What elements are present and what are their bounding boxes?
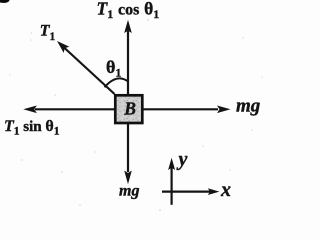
svg-text:θ1: θ1 [106, 57, 121, 80]
arrowhead diagonal up-left [57, 41, 69, 53]
wire: upward force line (T1 cos theta1) [127, 31, 129, 94]
wire: left force line (T1 sin theta1) [35, 108, 114, 110]
arrowhead down [124, 171, 132, 185]
svg-text:T1 cos θ1: T1 cos θ1 [97, 0, 160, 21]
wire: right force line (mg) [144, 108, 219, 110]
arrowhead left [23, 106, 37, 114]
y-axis line [171, 166, 173, 205]
svg-text:T1: T1 [40, 23, 56, 43]
x-axis line [162, 191, 211, 193]
wire: diagonal tension line T1 [64, 48, 115, 95]
arrowhead up [124, 20, 132, 33]
page artifact: faint scan speckles [9, 19, 263, 211]
wire: downward force line (mg) [127, 124, 129, 172]
arrowhead y [168, 158, 175, 170]
arrowhead x [208, 188, 220, 195]
svg-text:y: y [177, 148, 188, 170]
block B [115, 95, 142, 123]
svg-text:T1 sin θ1: T1 sin θ1 [4, 118, 60, 138]
free-body diagram of block B [0, 0, 283, 216]
coordinate axes [162, 148, 231, 204]
arrowhead right [217, 106, 231, 114]
svg-text:x: x [220, 179, 231, 201]
svg-text:B: B [123, 98, 136, 118]
svg-text:mg: mg [119, 183, 139, 200]
svg-text:mg: mg [236, 95, 260, 116]
angle arc theta1 [105, 78, 129, 87]
page artifact: corner mark top-left [0, 0, 10, 4]
